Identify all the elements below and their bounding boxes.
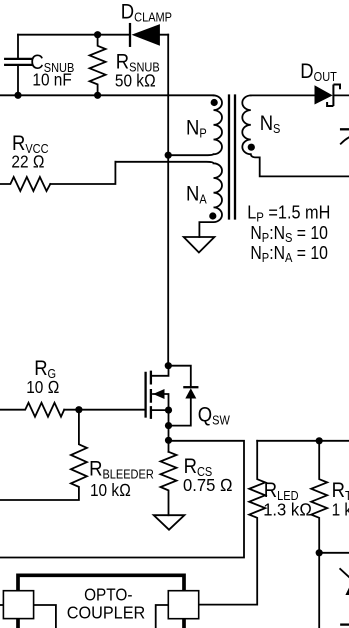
transformer auxiliary N_A	[115, 162, 222, 237]
svg-text:COUPLER: COUPLER	[67, 603, 146, 623]
capacitor C_OUT (partial at edge)	[341, 129, 349, 143]
svg-text:NP:NA = 10: NP:NA = 10	[250, 242, 328, 265]
svg-text:0.75 Ω: 0.75 Ω	[183, 476, 233, 495]
svg-text:50 kΩ: 50 kΩ	[115, 72, 156, 91]
node source sense junction	[165, 437, 172, 444]
ground (transformer N_A)	[184, 237, 215, 253]
capacitor C_SNUB	[5, 35, 31, 96]
node R_T top junction	[316, 437, 323, 444]
resistor R_T	[311, 441, 327, 628]
transformer T1 primary N_P	[168, 95, 222, 155]
pin pad opto right	[168, 591, 198, 619]
svg-text:NA: NA	[186, 182, 207, 206]
wire drain vertical (clamp to Q_SW drain)	[167, 35, 169, 366]
resistor R_SNUB	[90, 35, 106, 96]
wire N_S top to D_OUT	[251, 94, 315, 96]
transformer secondary N_S	[242, 95, 349, 176]
node body diode junction	[165, 422, 172, 429]
wire opto left pin internal	[33, 605, 56, 628]
svg-text:DOUT: DOUT	[300, 60, 337, 84]
svg-text:OPTO-: OPTO-	[84, 585, 132, 604]
wire opto left pin external	[0, 604, 5, 606]
optocoupler U1 box	[18, 575, 184, 628]
svg-text:NS: NS	[260, 112, 281, 136]
resistor R_VCC	[0, 177, 50, 191]
svg-text:10 Ω: 10 Ω	[26, 378, 59, 397]
transistor Q_SW (MOSFET)	[146, 366, 169, 418]
wire source sense to left edge	[0, 441, 244, 558]
resistor R_CS	[161, 452, 177, 515]
diode D_OUT (schottky)	[315, 85, 341, 107]
svg-text:QSW: QSW	[198, 403, 231, 427]
shunt regulator U2 TL431 (partial at edge)	[340, 569, 349, 625]
wire D_OUT cathode to edge	[333, 94, 349, 96]
wire bottom rail (bulk+ to N_P top)	[0, 94, 214, 96]
diode D_CLAMP	[130, 24, 160, 46]
node snubber top junction	[94, 31, 101, 38]
svg-text:10 kΩ: 10 kΩ	[90, 481, 131, 500]
svg-text:NP: NP	[186, 116, 207, 140]
wire snubber top rail	[18, 34, 168, 36]
node N_P bottom junction	[165, 152, 172, 159]
resistor R_BLEEDER	[0, 410, 87, 500]
wire R_LED top rail	[257, 440, 349, 442]
node C_SNUB bottom junction	[14, 92, 21, 99]
node N_S phase dot	[248, 144, 255, 151]
node N_A phase dot	[209, 212, 216, 219]
wire opto right pin internal	[156, 605, 169, 628]
wire R_VCC to N_A top (crossover)	[50, 162, 115, 184]
node N_P phase dot	[211, 99, 218, 106]
node drain junction	[165, 362, 172, 369]
resistor R_G	[0, 403, 64, 417]
svg-text:RBLEEDER: RBLEEDER	[89, 457, 154, 481]
svg-text:DCLAMP: DCLAMP	[121, 1, 172, 25]
ground (R_CS)	[154, 515, 185, 530]
resistor R_LED	[199, 441, 266, 605]
diode Q_SW body diode	[169, 366, 198, 426]
transformer core	[229, 96, 235, 219]
wire R_T bottom to edge	[319, 552, 349, 554]
svg-text:RTL: RTL	[332, 479, 349, 503]
svg-text:22 Ω: 22 Ω	[11, 153, 44, 172]
pin pad opto left	[3, 591, 33, 619]
node R_SNUB bottom junction	[94, 92, 101, 99]
node R_T bottom junction	[316, 549, 323, 556]
svg-text:10 nF: 10 nF	[32, 71, 71, 90]
svg-text:1 kΩ: 1 kΩ	[332, 501, 349, 520]
wire R_G to gate	[64, 409, 144, 411]
wire source to R_CS	[168, 410, 170, 452]
node gate junction	[75, 406, 82, 413]
svg-text:1.3 kΩ: 1.3 kΩ	[263, 500, 312, 519]
node source junction	[165, 407, 172, 414]
